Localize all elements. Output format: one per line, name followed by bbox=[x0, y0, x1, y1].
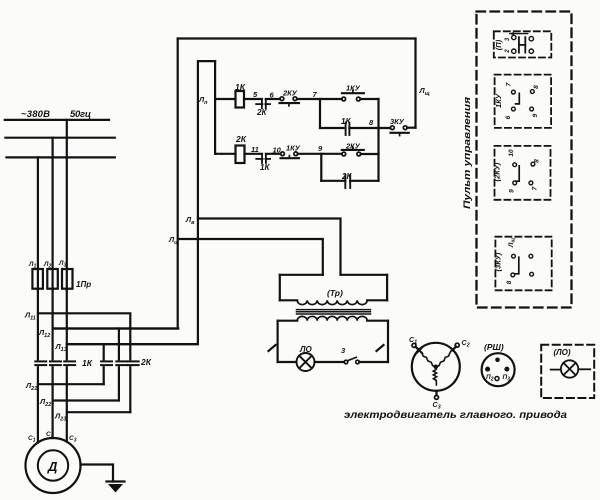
wire rung2 lower branch left bbox=[321, 180, 345, 182]
wire rung1 coil to contact bbox=[244, 98, 262, 100]
motor star terminal С3 bbox=[435, 395, 439, 399]
connector П pin c bbox=[529, 37, 533, 41]
bus line L1 bbox=[5, 119, 109, 121]
button 2КУ contact c bbox=[531, 162, 535, 166]
svg-text:2К: 2К bbox=[140, 357, 152, 367]
contact 2К holding (capacitor style) bbox=[345, 175, 350, 188]
transformer secondary winding bbox=[297, 316, 367, 320]
button 3КУ contact b bbox=[511, 273, 515, 277]
svg-text:3: 3 bbox=[341, 346, 346, 355]
svg-text:9: 9 bbox=[509, 189, 516, 193]
wire phase B fuse to contact bbox=[51, 289, 53, 360]
svg-text:8: 8 bbox=[506, 280, 513, 284]
svg-text:П3: П3 bbox=[503, 374, 511, 383]
svg-text:6: 6 bbox=[505, 115, 512, 119]
fuse 1Пр phase C bbox=[62, 269, 73, 289]
svg-text:1Пр: 1Пр bbox=[76, 280, 91, 289]
wire lamp to switch bbox=[315, 361, 345, 363]
wire control left vertical A (to Л12) bbox=[53, 39, 178, 329]
wire control right vertical bbox=[414, 39, 416, 128]
svg-text:3: 3 bbox=[505, 37, 511, 41]
wire net Л22 bbox=[53, 399, 119, 401]
wire net Л21 bbox=[38, 383, 104, 385]
wire rung1 left bbox=[215, 98, 235, 100]
wire net Лв to transformer bbox=[198, 219, 341, 275]
wire rung1 right bbox=[360, 98, 378, 100]
button 1КУ contact c bbox=[530, 90, 534, 94]
svg-text:50гц: 50гц bbox=[70, 109, 91, 120]
wire phase B contact to motor bbox=[51, 367, 53, 438]
wire phase A drop bbox=[37, 157, 39, 290]
svg-text:электродвигатель главного. п: электродвигатель главного. привода bbox=[344, 409, 567, 421]
wire phase C fuse to contact bbox=[66, 289, 68, 360]
svg-text:1К: 1К bbox=[82, 358, 93, 368]
fuse 1Пр phase B bbox=[47, 269, 58, 289]
pushbutton 1КУ (NC stop, rung2) bbox=[281, 152, 300, 158]
button 1КУ bridge bbox=[516, 93, 520, 104]
wire phase B drop bbox=[51, 138, 53, 290]
switch 3 bbox=[344, 357, 359, 364]
svg-text:Л21: Л21 bbox=[25, 381, 37, 392]
svg-text:Л22: Л22 bbox=[39, 397, 51, 408]
svg-text:5: 5 bbox=[253, 90, 258, 99]
svg-text:(Тр): (Тр) bbox=[327, 288, 343, 298]
svg-text:10: 10 bbox=[508, 149, 515, 157]
contact 1К phase C bbox=[64, 361, 75, 365]
motor star winding up-right bbox=[436, 350, 452, 366]
wire phase A contact to motor bbox=[37, 367, 39, 442]
button 3КУ contact a bbox=[512, 254, 516, 258]
svg-text:7: 7 bbox=[532, 186, 539, 190]
svg-text:С2: С2 bbox=[462, 340, 470, 349]
svg-text:Л3: Л3 bbox=[58, 260, 66, 269]
pushbutton 2КУ (NC stop) bbox=[280, 97, 300, 106]
svg-text:Лщ: Лщ bbox=[419, 86, 430, 97]
button 3КУ contact d bbox=[530, 272, 534, 276]
motor star terminal С2 bbox=[455, 343, 459, 347]
contact 2К crossover 2 bbox=[116, 361, 127, 365]
wire branch8 right bbox=[349, 127, 390, 129]
motor star center dot bbox=[434, 365, 439, 370]
bus line L3 bbox=[7, 156, 115, 158]
motor star circle bbox=[412, 343, 460, 391]
bus line L2 bbox=[5, 137, 114, 139]
svg-text:~380В: ~380В bbox=[21, 109, 50, 120]
button box 1КУ dashed bbox=[495, 75, 551, 128]
button 2КУ contact a bbox=[513, 163, 517, 167]
svg-text:2К: 2К bbox=[256, 108, 267, 117]
transformer Тр primary box right side bbox=[386, 275, 388, 301]
lamp (ЛО) symbol bbox=[551, 360, 591, 377]
motor star cross mark bbox=[416, 347, 422, 353]
transformer secondary box top right stub bbox=[367, 320, 388, 322]
svg-text:С3: С3 bbox=[69, 435, 77, 444]
wire net Лщ to transformer bbox=[178, 239, 322, 275]
wire net Л11 bbox=[38, 313, 130, 359]
contact 1К phase A bbox=[35, 361, 46, 365]
socket РШ pin left bbox=[485, 367, 490, 372]
transformer primary winding bbox=[297, 300, 367, 304]
terminal tick left bbox=[269, 345, 276, 351]
wire node9 branch down bbox=[320, 154, 322, 181]
wire 3КУ to right vertical bbox=[407, 127, 415, 129]
button 2КУ bridge bbox=[516, 166, 520, 181]
socket РШ pin right bbox=[504, 367, 509, 372]
wire rung2 to button 1КУ bbox=[266, 153, 281, 155]
svg-text:(РШ): (РШ) bbox=[484, 342, 504, 352]
connector П arrow bbox=[509, 32, 527, 35]
pushbutton 1КУ (NO start) bbox=[342, 90, 364, 101]
wire crossover 3 lower bbox=[129, 367, 131, 412]
svg-text:1КУ: 1КУ bbox=[494, 93, 503, 108]
socket РШ pin hole bbox=[495, 377, 499, 381]
motor star winding down bbox=[433, 367, 437, 385]
wire net Л12 tap down bbox=[118, 329, 120, 360]
wire net Л13 bbox=[67, 343, 198, 345]
connector П pin b bbox=[512, 49, 516, 53]
transformer Тр primary box bottom right stub bbox=[367, 299, 387, 301]
contact 1К holding (capacitor style) bbox=[346, 123, 350, 136]
svg-text:1КУ: 1КУ bbox=[286, 144, 301, 153]
transformer Тр primary box top edge left bbox=[280, 274, 323, 276]
svg-text:3КУ: 3КУ bbox=[390, 117, 405, 126]
svg-text:Л12: Л12 bbox=[38, 328, 50, 339]
coil 1К bbox=[236, 91, 245, 108]
connector box (П) dashed bbox=[494, 31, 552, 57]
pushbutton 3КУ (NC stop) bbox=[390, 126, 408, 136]
wire rung2 left bbox=[215, 153, 235, 155]
svg-text:Д: Д bbox=[47, 459, 58, 474]
motor Д inner circle bbox=[38, 450, 68, 480]
button 3КУ contact c bbox=[529, 254, 533, 258]
motor star terminal stub С2 bbox=[452, 347, 456, 351]
button 2КУ contact b bbox=[513, 181, 517, 185]
svg-text:7: 7 bbox=[506, 82, 513, 86]
svg-text:2К: 2К bbox=[235, 134, 247, 144]
wire control top bus bbox=[178, 37, 416, 39]
transformer Тр primary box left side bbox=[279, 275, 281, 301]
connector П pin a bbox=[512, 35, 516, 39]
svg-text:Л11: Л11 bbox=[24, 311, 36, 322]
wire crossover 1 lower bbox=[103, 367, 105, 384]
wire secondary bottom left bbox=[278, 361, 297, 363]
wire rung1 to node 7 bbox=[297, 98, 342, 100]
contact 1К break (rung2) bbox=[256, 154, 270, 163]
socket РШ pin top bbox=[495, 358, 500, 363]
terminal tick right bbox=[377, 345, 384, 351]
svg-text:8: 8 bbox=[369, 118, 374, 127]
wire node7 branch down bbox=[319, 99, 321, 128]
svg-text:Лв: Лв bbox=[185, 215, 195, 226]
svg-text:Лп: Лп bbox=[198, 95, 208, 106]
button box (3КУ) dashed bbox=[495, 237, 551, 291]
button box (2КУ) dashed bbox=[495, 146, 551, 200]
contact 2К crossover 1 bbox=[101, 361, 112, 365]
svg-text:1К: 1К bbox=[260, 163, 270, 172]
svg-text:2: 2 bbox=[505, 49, 511, 54]
motor Д outer circle bbox=[26, 438, 81, 493]
wire phase C contact to motor bbox=[66, 367, 68, 442]
motor star terminal С1 bbox=[412, 343, 416, 347]
control panel outer dashed box bbox=[477, 12, 572, 308]
svg-text:9: 9 bbox=[532, 113, 539, 117]
wire crossover 2 lower bbox=[118, 367, 120, 400]
lamp ЛО bbox=[297, 353, 315, 371]
svg-text:11: 11 bbox=[251, 145, 259, 154]
pushbutton 2КУ (NO start, rung2) bbox=[342, 147, 364, 156]
lamp box (ЛО) dashed bbox=[541, 345, 594, 398]
contact 2К break (rung1) bbox=[256, 99, 270, 108]
wire rung2 lower branch right bbox=[350, 180, 378, 182]
motor star terminal stub С3 bbox=[435, 391, 437, 396]
svg-text:(ЛО): (ЛО) bbox=[554, 348, 571, 357]
fuse 1Пр phase A bbox=[32, 269, 43, 289]
socket РШ circle bbox=[482, 353, 515, 386]
wire control left vertical B (to Л13) bbox=[67, 61, 215, 344]
wire phase C drop bbox=[66, 120, 68, 290]
contact 1К phase B bbox=[50, 361, 61, 365]
svg-text:Лщ: Лщ bbox=[508, 238, 517, 248]
connector П pin d bbox=[529, 49, 533, 53]
wire rung2 right bbox=[361, 153, 379, 155]
svg-text:(2КУ): (2КУ) bbox=[493, 162, 502, 181]
coil 2К bbox=[236, 146, 245, 164]
svg-text:(П): (П) bbox=[494, 39, 503, 50]
transformer secondary box top left stub bbox=[278, 320, 298, 322]
svg-text:8: 8 bbox=[533, 85, 540, 89]
wire rung2 to node 9 bbox=[298, 153, 342, 155]
wire branch8 left bbox=[320, 127, 344, 129]
motor star terminal stub С1 bbox=[415, 347, 419, 351]
svg-text:(3КУ): (3КУ) bbox=[494, 252, 503, 271]
contact 2К crossover 3 bbox=[128, 361, 139, 365]
svg-text:Л13: Л13 bbox=[55, 342, 67, 353]
motor star winding up-left bbox=[419, 350, 436, 366]
transformer Тр primary box top edge right bbox=[341, 274, 388, 276]
button 3КУ bridge bbox=[515, 257, 519, 274]
button 2КУ contact d bbox=[529, 181, 533, 185]
wire net Л12 bbox=[53, 327, 179, 329]
svg-text:Л23: Л23 bbox=[54, 412, 66, 423]
svg-text:9: 9 bbox=[318, 144, 323, 153]
wire rung feeder C bbox=[214, 61, 216, 154]
wire motor to ground bbox=[81, 465, 114, 482]
wire rung1 to button 2КУ bbox=[266, 98, 280, 100]
button 1КУ contact b bbox=[512, 107, 516, 111]
connector П plug symbol bbox=[519, 37, 525, 52]
transformer secondary box left side bbox=[277, 321, 279, 362]
wire rung2 coil to contact bbox=[245, 153, 263, 155]
wire switch to right side bbox=[359, 361, 388, 363]
transformer core bbox=[297, 310, 371, 314]
transformer secondary box right side bbox=[387, 321, 389, 362]
wire net Л13 tap down bbox=[103, 344, 105, 359]
svg-text:С1: С1 bbox=[28, 435, 36, 444]
ground bbox=[107, 482, 125, 493]
button 1КУ contact a bbox=[512, 90, 516, 94]
transformer Тр primary box bottom left stub bbox=[280, 299, 297, 301]
wire right branch vertical bbox=[377, 99, 379, 181]
svg-text:Пульт управления: Пульт управления bbox=[462, 96, 472, 209]
button 1КУ contact d bbox=[530, 107, 534, 111]
wire phase A fuse to contact bbox=[37, 289, 39, 360]
svg-text:7: 7 bbox=[313, 90, 318, 99]
wire net Л23 bbox=[67, 411, 131, 413]
